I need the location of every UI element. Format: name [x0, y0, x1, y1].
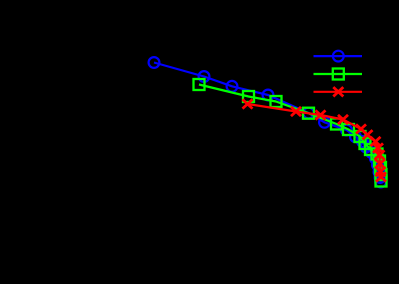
green square marker point 6 [343, 124, 354, 135]
blue circle marker point 4 [263, 90, 274, 101]
green square marker point 14 [376, 176, 387, 187]
blue circle marker point 11 [366, 147, 377, 158]
red X marker point 6 [363, 130, 373, 139]
red X marker point 5 [356, 124, 366, 133]
green square marker point 4 [303, 108, 314, 119]
red X marker point 12 [376, 172, 386, 181]
blue circle marker point 16 [375, 177, 386, 188]
legend sample 2: green line [314, 73, 363, 75]
red X marker point 8 [373, 143, 383, 152]
blue circle marker point 15 [375, 172, 386, 183]
red X marker point 4 [338, 115, 348, 124]
blue circle marker point 5 [303, 108, 314, 119]
legend sample 1: blue circle marker [333, 51, 344, 62]
blue circle marker point 3 [227, 81, 238, 92]
green square marker point 10 [372, 149, 383, 160]
blue circle marker point 2 [199, 71, 210, 82]
green square marker point 2 [243, 91, 254, 102]
legend sample 2: green square marker [333, 69, 344, 80]
red X marker point 10 [375, 159, 385, 168]
blue circle marker point 13 [372, 160, 383, 171]
red X marker point 7 [371, 137, 381, 146]
green curve line (series 2) [199, 85, 381, 182]
green square marker point 13 [376, 169, 387, 180]
green square marker point 7 [355, 131, 366, 142]
blue circle marker point 6 [319, 117, 330, 128]
blue circle marker point 1 [149, 57, 160, 68]
legend sample 1: blue line [314, 55, 363, 57]
blue curve line (series 1) [154, 63, 381, 183]
legend sample 3: red X marker [333, 87, 343, 96]
green square marker point 3 [271, 96, 282, 107]
legend sample 3: red line [314, 91, 363, 93]
red X marker point 1 [243, 99, 253, 108]
red X marker point 9 [375, 150, 385, 159]
green square marker point 11 [374, 156, 385, 167]
blue circle marker point 10 [361, 142, 372, 153]
green square marker point 1 [194, 79, 205, 90]
blue circle marker point 7 [341, 125, 352, 136]
red X marker point 3 [316, 110, 326, 119]
blue circle marker point 14 [374, 167, 385, 178]
blue circle marker point 9 [357, 136, 368, 147]
red X marker point 11 [376, 167, 386, 176]
red X marker point 2 [291, 107, 301, 116]
red curve line (series 3) [248, 104, 382, 177]
green square marker point 5 [331, 119, 342, 130]
blue circle marker point 8 [350, 131, 361, 142]
green square marker point 12 [375, 162, 386, 173]
green square marker point 9 [365, 144, 376, 155]
green square marker point 8 [360, 138, 371, 149]
blue circle marker point 12 [370, 153, 381, 164]
